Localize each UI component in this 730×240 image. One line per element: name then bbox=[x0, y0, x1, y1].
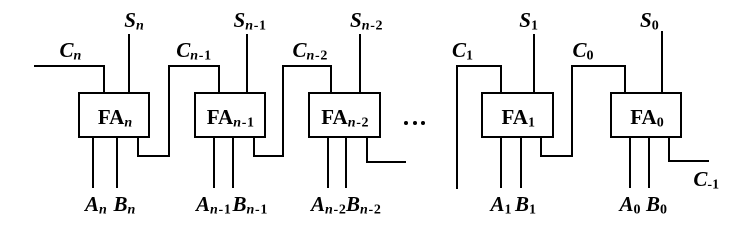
wire C_0 drop into FA_0 bbox=[624, 65, 626, 93]
node C_-1 label bbox=[693, 169, 719, 196]
full adder FA_0 bbox=[610, 92, 682, 138]
wire A_n-1 pin bbox=[213, 138, 215, 188]
node S_n-2 label bbox=[350, 10, 383, 37]
node C_n-1 label bbox=[176, 40, 212, 67]
wire C_1 riser (dangling from below) bbox=[456, 65, 458, 190]
full adder FA_n-1 bbox=[194, 92, 267, 138]
wire FA_1 carry-out horizontal bbox=[540, 155, 572, 157]
ellipsis dot 3 bbox=[421, 121, 425, 125]
node C_n label bbox=[60, 40, 82, 67]
wire A_n-2 pin bbox=[327, 138, 329, 188]
wire carry riser to C_n-1 bbox=[168, 65, 170, 158]
node S_n label bbox=[124, 10, 143, 37]
wire C_n-1 drop into FA_n-1 bbox=[218, 65, 220, 93]
node A_n label bbox=[85, 194, 107, 221]
ellipsis dot 1 bbox=[404, 121, 408, 125]
wire B_n-1 pin bbox=[232, 138, 234, 188]
wire carry riser to C_n-2 bbox=[282, 65, 284, 158]
full adder FA_1 bbox=[481, 92, 554, 138]
wire S_n vertical bbox=[128, 34, 130, 93]
node C_n-2 label bbox=[293, 40, 329, 67]
wire A_1 pin bbox=[500, 138, 502, 188]
wire S_0 vertical bbox=[661, 31, 663, 92]
wire S_n-2 vertical bbox=[359, 34, 361, 93]
wire A_n pin bbox=[92, 138, 94, 188]
wire FA_0 carry-out down bbox=[668, 138, 670, 162]
wire B_n-2 pin bbox=[345, 138, 347, 188]
node A_n-1 label bbox=[196, 194, 232, 221]
wire C_n-1 horizontal bbox=[168, 65, 220, 67]
wire C_n-2 horizontal bbox=[282, 65, 332, 67]
node B_n label bbox=[114, 194, 136, 221]
node S_n-1 label bbox=[234, 10, 267, 37]
wire B_n pin bbox=[116, 138, 118, 188]
wire FA_n-1 carry-out horizontal bbox=[253, 155, 284, 157]
node B_0 label bbox=[646, 194, 667, 221]
wire B_0 pin bbox=[648, 138, 650, 188]
node C_1 label bbox=[452, 40, 473, 67]
node S_0 label bbox=[640, 10, 659, 37]
wire S_1 vertical bbox=[533, 34, 535, 93]
node S_1 label bbox=[519, 10, 538, 37]
full adder FA_n bbox=[78, 92, 150, 138]
node B_n-1 label bbox=[233, 194, 269, 221]
wire A_0 pin bbox=[629, 138, 631, 188]
wire C_1 drop into FA_1 bbox=[500, 65, 502, 93]
wire C_n drop into FA_n bbox=[103, 65, 105, 93]
node B_n-2 label bbox=[346, 194, 382, 221]
wire FA_n carry-out horizontal bbox=[137, 155, 170, 157]
wire B_1 pin bbox=[520, 138, 522, 188]
wire FA_n-2 carry-out down bbox=[366, 138, 368, 163]
wire C_1 horizontal bbox=[456, 65, 502, 67]
wire C_n horizontal input bbox=[34, 65, 105, 67]
node A_0 label bbox=[620, 194, 641, 221]
node C_0 label bbox=[573, 40, 594, 67]
wire C_-1 horizontal (dangling) bbox=[668, 160, 709, 162]
node B_1 label bbox=[515, 194, 536, 221]
node A_1 label bbox=[491, 194, 512, 221]
wire carry riser to C_0 bbox=[571, 65, 573, 158]
node A_n-2 label bbox=[311, 194, 347, 221]
full adder FA_n-2 bbox=[308, 92, 381, 138]
ellipsis dot 2 bbox=[413, 121, 417, 125]
wire C_0 horizontal bbox=[571, 65, 626, 67]
wire FA_n-2 carry-out horizontal (dangling) bbox=[366, 161, 406, 163]
wire FA_n-1 carry-out down bbox=[253, 138, 255, 157]
wire FA_n carry-out down bbox=[137, 138, 139, 157]
wire S_n-1 vertical bbox=[246, 34, 248, 93]
wire FA_1 carry-out down bbox=[540, 138, 542, 157]
wire C_n-2 drop into FA_n-2 bbox=[330, 65, 332, 93]
